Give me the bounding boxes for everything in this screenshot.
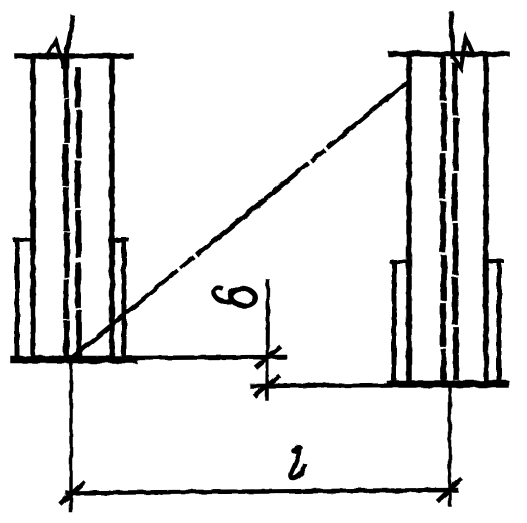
left socket left wall	[15, 240, 20, 357]
label b (rotated) tail	[214, 288, 231, 302]
label b (rotated) bowl	[230, 287, 257, 307]
left socket right wall	[122, 240, 127, 357]
left base extension line	[130, 357, 285, 358]
dimension line l	[68, 490, 456, 493]
left column centerline above break	[64, 18, 73, 67]
right socket right wall	[497, 261, 502, 382]
right socket left wall	[392, 262, 397, 382]
right column top break line	[391, 51, 507, 57]
label l top serif	[290, 443, 304, 455]
right column left edge	[406, 54, 412, 382]
right column centerline above break	[451, 13, 453, 57]
dimension line b vertical	[267, 281, 268, 399]
left column top break line	[17, 53, 131, 59]
left column break zigzag	[47, 41, 64, 67]
tick at upper crossing of b	[257, 348, 279, 366]
right column break zigzag	[453, 38, 473, 68]
right column axis extension below	[448, 383, 452, 505]
left column hidden dashed line 2	[78, 70, 80, 356]
label l	[291, 450, 305, 479]
left socket bottom	[14, 356, 133, 364]
tick at left end of l	[62, 483, 83, 503]
right socket left cap	[392, 260, 407, 264]
right socket right cap	[488, 259, 502, 263]
right column hidden dashed line 1	[443, 58, 445, 379]
diagonal dash-dot alignment line	[68, 83, 406, 361]
left column right edge	[109, 56, 114, 357]
tick at right end of l	[439, 480, 460, 500]
left socket left cap	[15, 238, 31, 242]
right column hidden dashed line 2	[455, 66, 457, 377]
left socket right cap	[111, 238, 127, 242]
right base extension line	[252, 385, 395, 386]
left column left edge	[30, 56, 35, 357]
left column axis extension below	[69, 357, 73, 511]
right socket bottom	[390, 380, 505, 388]
tick at lower crossing of b	[256, 377, 278, 395]
right column right edge	[483, 54, 488, 382]
left column hidden dashed line 1	[66, 60, 68, 356]
